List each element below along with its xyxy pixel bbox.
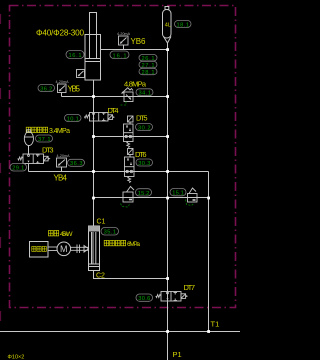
tag stack 26.1 / 27.1 / 28.1 [139,55,157,63]
svg-text:29.1: 29.1 [12,166,24,172]
wire: DT3 drop [28,164,30,172]
piston rod [90,13,97,59]
svg-text:30.2: 30.2 [138,125,151,131]
svg-text:15.1: 15.1 [172,191,184,197]
tag 34.1 [136,89,153,97]
working pressure label: 6MPa (CJK drawn) [104,240,125,245]
tag 10.1 [65,115,82,123]
wire: DT3/YB4/DT6 branch y=171.5 [29,171,209,173]
svg-text:4.5kW: 4.5kW [60,231,73,238]
tag 29.1 [10,164,27,172]
tag 30.3 [136,159,153,167]
svg-text:30.6: 30.6 [138,296,150,302]
controller-motor wires [48,247,57,251]
svg-text:6MPa: 6MPa [127,241,140,248]
svg-text:18.1: 18.1 [177,22,190,28]
svg-text:YB4: YB4 [54,173,68,182]
svg-text:15.2: 15.2 [138,191,150,197]
piston [85,58,101,60]
svg-text:DT6: DT6 [135,150,147,159]
svg-text:DT7: DT7 [184,283,196,292]
wire: pump suction line [94,271,168,279]
svg-text:T1: T1 [211,320,220,329]
tag 16.1 right [110,51,129,59]
relief valve pilot dashes [121,102,127,106]
wire: YB4 drop [61,167,63,172]
junction node (93.5,136.5) [92,135,95,138]
svg-text:10.1: 10.1 [67,116,79,122]
svg-text:36.2: 36.2 [40,86,52,92]
svg-text:35.1: 35.1 [104,230,117,236]
svg-text:34.1: 34.1 [139,91,152,97]
svg-text:16.1: 16.1 [113,53,127,59]
svg-text:DT4: DT4 [108,106,119,115]
junction node accumulator line [166,48,169,51]
junction node (208.5,198) [207,197,210,200]
svg-text:P1: P1 [173,350,182,359]
svg-text:4-20mA: 4-20mA [117,32,131,36]
svg-text:Φ40/Φ28-300: Φ40/Φ28-300 [36,29,84,38]
junction node (167.5,96.5) [166,95,169,98]
junction node (93.5,171.5) [92,170,95,173]
tag 16.1 left [66,51,84,60]
junction node (93.5,96.5) [92,95,95,98]
svg-text:30.3: 30.3 [138,161,150,167]
pump assembly [89,226,100,271]
wire: piston-side branch y=96 [62,96,168,98]
svg-text:DT3: DT3 [42,146,54,155]
svg-text:C2: C2 [96,273,105,280]
tag 30.2 [136,124,153,132]
label: charge pressure 3.4MPa (CJK drawn) [26,127,47,132]
pressure sensor YB5 [58,84,67,93]
drawing frame border (dashed magenta) [10,6,236,308]
svg-text:16.1: 16.1 [69,53,82,59]
junction node (167.5,198) [166,197,169,200]
junction node (93.5,198) [92,197,95,200]
svg-text:4.8MPa: 4.8MPa [124,80,147,89]
junction node (167.5,171.5) [166,170,169,173]
wire: tank return line T full width [0,331,240,333]
controller CJK label [32,247,47,252]
tag 30.6 [136,294,153,302]
tag 18.1 [175,21,192,29]
cylinder barrel [85,35,101,81]
wire: gas accumulator to DT3 [28,146,30,155]
svg-text:YB5: YB5 [68,85,81,94]
wire: rod-side line y=49 cylinder to accumulator node [101,49,168,51]
svg-text:36.3: 36.3 [70,161,83,167]
svg-text:3.4MPa: 3.4MPa [49,128,70,135]
wire: T-line vertical x=208.5 [208,172,210,332]
wire: main vertical line cylinder-to-pump x=93.5 [93,80,95,226]
svg-text:37.1: 37.1 [38,137,51,143]
svg-text:28.1: 28.1 [142,70,155,76]
label: motor 4.5kW (CJK drawn) [49,231,59,236]
svg-text:4-20mA: 4-20mA [57,154,71,158]
wire: main right bus x=167.5 [167,43,169,360]
shaft coupling [71,245,89,254]
svg-text:4-20mA: 4-20mA [56,80,70,84]
tag 36.3 [68,159,85,167]
outer sheet border fragment left edge [0,14,2,321]
junction node (167.5,136.5) [166,135,169,138]
pressure sensor YB6 [119,36,129,47]
accumulator 4L [163,7,172,44]
pressure sensor YB4 [57,158,67,167]
wire: throttle valves branch y=198 [94,197,209,199]
junction node (167.5,331.5) [166,330,169,333]
svg-text:Φ10×2: Φ10×2 [8,355,25,360]
controller box [30,242,49,258]
tag 37.1 [36,135,53,143]
wire: YB5 drop [61,93,63,97]
junction node (167.5,278.5) [166,277,169,280]
wire: YB6 drop [123,45,125,50]
displacement sensor on barrel [77,70,85,78]
tag 15.2 [136,189,152,197]
junction node (208.5,331.5) [207,330,210,333]
motor M [57,242,71,256]
tag 15.1 [170,189,186,197]
svg-text:C1: C1 [97,219,106,226]
svg-text:DT5: DT5 [136,114,148,123]
svg-text:YB6: YB6 [131,37,147,46]
tag 36.2 (YB5) [38,85,55,93]
tag 35.1 [101,228,119,236]
svg-text:4L: 4L [165,23,171,29]
svg-text:M: M [60,244,68,254]
wire: DT5 branch y=136.5 [94,136,168,138]
